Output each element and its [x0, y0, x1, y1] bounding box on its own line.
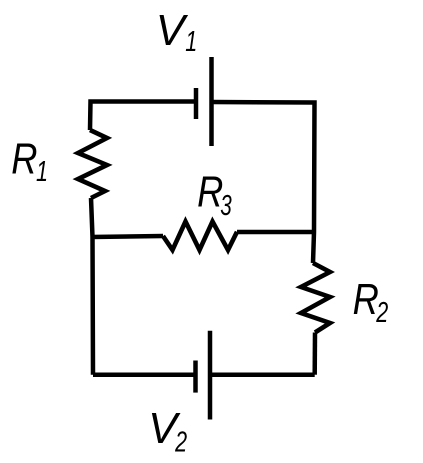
resistor R2	[301, 263, 330, 333]
svg-text:2: 2	[174, 427, 187, 459]
label V2	[148, 405, 187, 459]
wire top-right (V1 positive lead to right rail)	[212, 102, 315, 263]
wire left rail below R1	[91, 198, 93, 375]
svg-text:3: 3	[220, 190, 232, 222]
resistor R3	[163, 222, 237, 251]
label R1	[11, 136, 48, 188]
label V1	[156, 7, 197, 58]
svg-text:1: 1	[185, 26, 197, 58]
svg-text:2: 2	[376, 297, 389, 329]
resistor R1	[78, 130, 107, 198]
battery V1 long plate (positive)	[209, 57, 214, 146]
svg-text:V: V	[156, 7, 189, 55]
battery V2 short plate (negative)	[193, 361, 198, 393]
svg-text:1: 1	[36, 156, 48, 188]
wire bottom-left (V2 negative plate to left rail)	[93, 373, 196, 378]
label R2	[353, 276, 389, 329]
wire right rail below R2	[312, 333, 317, 375]
battery V2 long plate (positive)	[208, 331, 213, 420]
wire top-left (V1 negative lead to left rail)	[90, 102, 196, 131]
wire middle-right (R3 to right rail)	[237, 230, 315, 235]
label R3	[197, 169, 232, 223]
svg-text:R: R	[11, 136, 37, 184]
wire bottom-right (right rail to V2 positive plate)	[210, 373, 315, 378]
wire middle-left (junction to R3)	[91, 236, 163, 237]
svg-text:R: R	[353, 276, 379, 324]
battery V1 short plate (negative)	[194, 88, 199, 119]
